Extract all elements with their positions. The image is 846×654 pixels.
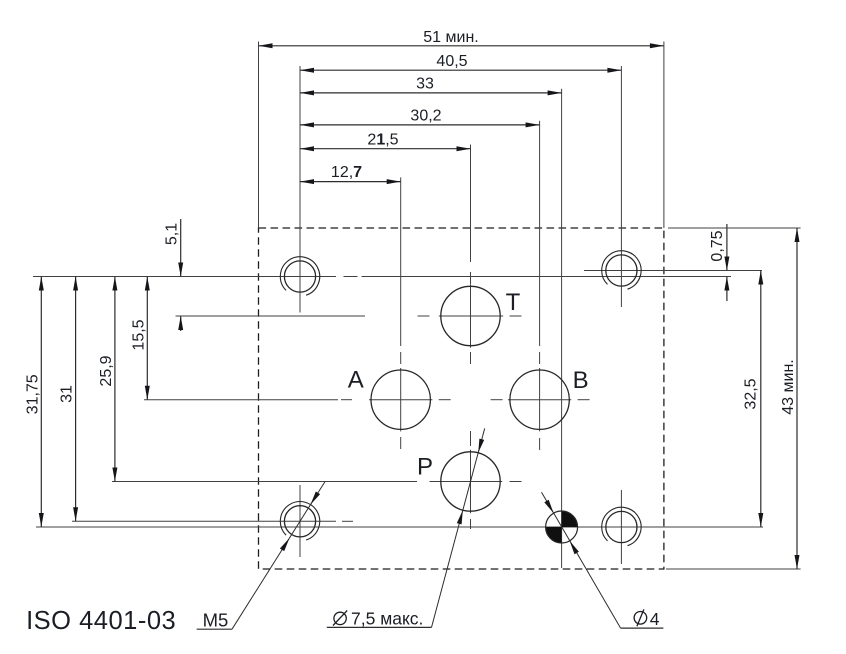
svg-text:31: 31	[59, 385, 76, 403]
datum row extension line (row 0)	[33, 276, 731, 278]
dimension 25,9	[98, 277, 118, 482]
bottom-right bolt row extension line	[641, 526, 763, 528]
plate top edge right extension line	[668, 227, 801, 229]
label ⌀7,5 макс.	[333, 609, 423, 629]
svg-text:0,75: 0,75	[709, 230, 726, 261]
port label T	[506, 289, 521, 316]
port T centerlines	[418, 272, 522, 364]
svg-text:32,5: 32,5	[742, 378, 759, 409]
svg-text:ISO 4401-03: ISO 4401-03	[26, 607, 176, 635]
dimension 43 мин.	[780, 228, 800, 569]
port label A	[348, 367, 364, 394]
plate bottom edge right extension line	[666, 568, 801, 570]
svg-text:M5: M5	[203, 610, 229, 631]
top-right bolt row extension line	[584, 270, 762, 272]
svg-text:43 мин.: 43 мин.	[780, 359, 797, 414]
label M5	[203, 610, 229, 631]
svg-text:31,75: 31,75	[24, 374, 41, 414]
dimension 15,5	[130, 277, 150, 400]
row 15.5 extension line to port A	[144, 399, 338, 401]
svg-text:A: A	[348, 367, 364, 394]
svg-text:40,5: 40,5	[436, 53, 467, 70]
port hole B	[510, 370, 569, 429]
port hole P	[441, 452, 500, 511]
M5 bolt hole G2 (top-right)	[602, 251, 641, 289]
port B centerlines	[491, 352, 590, 450]
svg-text:4: 4	[650, 609, 660, 629]
port P centerlines	[430, 431, 522, 529]
svg-text:51 мин.: 51 мин.	[423, 29, 478, 46]
dimension 30,2	[300, 108, 540, 128]
port A centerlines	[341, 352, 451, 449]
port label B	[573, 367, 589, 394]
svg-text:5,1: 5,1	[164, 223, 181, 245]
port label P	[417, 454, 433, 481]
extension line column 40.5 to bolt hole G2	[620, 66, 622, 307]
pin hole ⌀4 (quadrant-filled)	[546, 511, 578, 543]
M5 bolt hole G4 (bottom-right)	[602, 507, 641, 545]
extension line column 12.7 to port A	[400, 177, 402, 346]
dimension 21,5	[300, 131, 471, 151]
leader M5 to bolt hole G3	[197, 482, 325, 630]
row 31 extension line to bolt hole G3	[72, 520, 353, 522]
svg-text:T: T	[506, 289, 521, 316]
dimension 12,7	[300, 164, 401, 184]
extension line datum column x=0 through bolt hole G1	[299, 66, 301, 313]
label ⌀4	[634, 609, 660, 629]
row 31.75 full extension line through pin hole	[36, 526, 763, 528]
extension line column 33 to pin hole	[561, 89, 563, 568]
svg-text:30,2: 30,2	[410, 108, 441, 125]
dimension 31,75	[24, 277, 44, 528]
datum row right extension line	[668, 276, 731, 278]
leader ⌀7,5 макс. to port P	[327, 428, 485, 627]
extension line plate left edge (51 dim)	[258, 42, 260, 229]
title ISO 4401-03	[26, 607, 176, 635]
port hole T	[441, 286, 500, 345]
svg-text:7,5 макс.: 7,5 макс.	[351, 609, 423, 629]
svg-text:B: B	[573, 367, 589, 394]
row 5.1 extension line to port T	[176, 315, 366, 317]
dimension 0,75 (outside arrows)	[709, 224, 730, 301]
svg-text:12,7: 12,7	[331, 164, 362, 181]
bolt hole G3 centerline vertical	[299, 485, 301, 557]
bolt hole G4 centerline vertical	[620, 490, 622, 564]
svg-text:25,9: 25,9	[98, 355, 115, 386]
dimension 51 мин. (plate width)	[259, 29, 664, 48]
M5 bolt hole G3 (bottom-left)	[280, 502, 319, 540]
extension line column 30.2 to port B	[539, 121, 541, 346]
mounting surface outline (dashed plate edge)	[259, 228, 664, 569]
extension line plate right edge (51 dim)	[663, 42, 665, 229]
svg-text:21,5: 21,5	[367, 131, 398, 148]
M5 bolt hole G1 (top-left)	[280, 257, 319, 295]
svg-text:15,5: 15,5	[130, 319, 147, 350]
leader ⌀4 to pin hole	[542, 492, 664, 628]
extension line column 21.5 to port T	[470, 145, 472, 263]
svg-text:33: 33	[416, 76, 434, 93]
dimension 32,5	[742, 271, 763, 528]
dimension 40,5	[300, 53, 621, 73]
dimension 31	[59, 277, 79, 522]
dimension 5,1 (outside arrows)	[164, 219, 184, 331]
svg-text:P: P	[417, 454, 433, 481]
port hole A	[371, 370, 430, 429]
row 25.9 extension line to port P	[112, 481, 417, 483]
dimension 33	[300, 76, 562, 96]
